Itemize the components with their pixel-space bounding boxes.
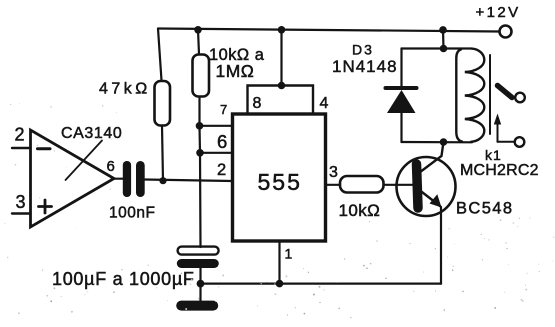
svg-text:47kΩ: 47kΩ xyxy=(99,81,151,98)
wire resistor to transistor base xyxy=(384,184,414,186)
node junction loop top xyxy=(440,45,448,53)
relay arrow xyxy=(497,122,499,139)
capacitor electrolytic bottom plate xyxy=(177,259,219,268)
svg-text:k1: k1 xyxy=(485,147,502,163)
wire cap to pin 2 of 555 xyxy=(145,180,232,182)
+12V terminal circle xyxy=(500,26,512,38)
wire node down to electrolytic cap xyxy=(199,153,202,247)
wire top +12V rail xyxy=(158,29,499,32)
svg-text:6: 6 xyxy=(217,131,227,152)
wire relay loop top xyxy=(402,47,472,49)
wire to ground xyxy=(199,284,201,301)
svg-text:BC548: BC548 xyxy=(456,200,513,218)
wire pins 8-4 bracket xyxy=(248,86,314,115)
relay core line xyxy=(489,55,491,134)
relay coil left edge xyxy=(456,49,462,141)
wire 10k-1M bottom lead to pin7 xyxy=(198,98,200,126)
wire pin2 stub xyxy=(12,147,31,149)
wire relay loop bottom xyxy=(402,141,473,144)
relay armature lever xyxy=(498,86,513,98)
wire pin3 stub xyxy=(12,212,31,214)
svg-text:100nF: 100nF xyxy=(109,205,155,222)
svg-text:6: 6 xyxy=(107,158,115,175)
wire bracket to rail xyxy=(280,30,282,86)
wire node to pin6 xyxy=(198,126,201,153)
svg-text:1N4148: 1N4148 xyxy=(332,57,398,76)
wire diode top lead xyxy=(400,49,402,88)
transistor Q BC548 circle xyxy=(397,157,456,216)
relay K1 coil xyxy=(465,49,485,142)
wire opamp out to cap xyxy=(112,178,124,180)
transistor collector xyxy=(420,143,444,173)
wire pin 7 xyxy=(200,125,233,127)
ground bar xyxy=(176,301,218,311)
relay contact terminal upper xyxy=(515,93,525,103)
svg-text:MCH2RC2: MCH2RC2 xyxy=(460,162,539,179)
op-amp U CA3140 triangle xyxy=(31,130,115,227)
transistor emitter xyxy=(420,191,440,207)
svg-text:8: 8 xyxy=(253,95,262,112)
svg-text:2: 2 xyxy=(217,161,226,179)
node junction rail/relay xyxy=(439,26,447,34)
relay contact terminal lower xyxy=(515,137,525,147)
wire pin 6 xyxy=(200,152,232,154)
node junction 47k/pin2 line xyxy=(159,177,166,184)
wire 47k bottom lead xyxy=(162,126,163,181)
node junction rail/10k-1M xyxy=(194,26,202,34)
svg-text:3: 3 xyxy=(16,192,26,212)
resistor 10k a 1M body xyxy=(193,55,210,97)
capacitor 100nF plate 2 xyxy=(136,161,145,197)
resistor R 47k body xyxy=(155,81,171,126)
node junction cap/bottom wire xyxy=(197,280,205,288)
wire cap to bottom rail xyxy=(199,268,201,284)
svg-text:3: 3 xyxy=(329,164,338,181)
wire rail to relay loop xyxy=(442,30,445,49)
node junction bracket/supply xyxy=(278,82,286,90)
wire arrow to lower terminal xyxy=(497,139,499,142)
svg-text:100µF a 1000µF: 100µF a 1000µF xyxy=(52,269,195,289)
node junction loop bottom / collector xyxy=(440,138,448,146)
wire pin 1 to ground rail xyxy=(278,242,280,284)
svg-text:4: 4 xyxy=(320,95,329,112)
wire pin 3 xyxy=(326,184,340,186)
svg-text:D3: D3 xyxy=(352,42,374,58)
svg-text:1MΩ: 1MΩ xyxy=(216,61,255,81)
diode D3 triangle xyxy=(387,90,416,113)
wire emitter down to bottom rail xyxy=(440,207,442,284)
diode D3 cathode bar xyxy=(386,86,417,90)
resistor 10k base body xyxy=(340,176,384,193)
capacitor electrolytic top plate xyxy=(178,247,219,255)
svg-text:10kΩ: 10kΩ xyxy=(339,201,381,220)
emitter arrowhead xyxy=(430,194,442,207)
minus input sign xyxy=(38,147,51,150)
node junction pin7 xyxy=(196,122,204,130)
plus input sign xyxy=(39,205,52,208)
wire 47k top lead xyxy=(158,29,162,81)
svg-text:1: 1 xyxy=(285,246,293,262)
wire diode bottom lead xyxy=(400,113,402,142)
IC 555 body xyxy=(233,114,326,241)
svg-text:555: 555 xyxy=(258,169,302,195)
svg-text:+12V: +12V xyxy=(476,4,521,21)
node junction pin1/bottom wire xyxy=(276,280,284,288)
svg-text:2: 2 xyxy=(15,125,25,145)
wire 10k-1M top lead xyxy=(198,30,199,54)
pointer line label to opamp xyxy=(66,141,103,181)
capacitor 100nF plate 1 xyxy=(123,161,131,197)
svg-text:CA3140: CA3140 xyxy=(61,125,122,142)
node junction pin6 xyxy=(196,149,204,157)
transistor base bar xyxy=(417,164,419,208)
node junction rail/bracket wire xyxy=(278,26,286,34)
scan speckle noise xyxy=(4,103,554,318)
svg-text:7: 7 xyxy=(220,102,227,117)
wire bottom ground rail xyxy=(201,283,442,285)
